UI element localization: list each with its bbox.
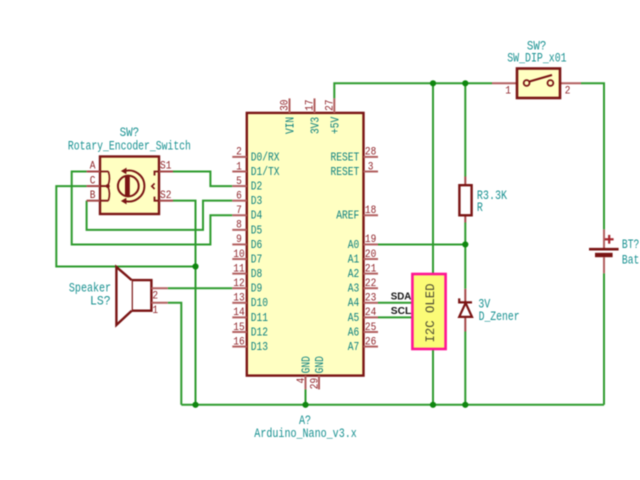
svg-text:Rotary_Encoder_Switch: Rotary_Encoder_Switch (68, 139, 191, 153)
svg-text:2: 2 (152, 291, 158, 303)
svg-text:S1: S1 (160, 161, 172, 173)
svg-text:A5: A5 (348, 312, 360, 325)
svg-text:18: 18 (365, 205, 376, 217)
svg-text:C: C (90, 175, 96, 187)
svg-text:6: 6 (236, 190, 242, 202)
svg-text:LS?: LS? (90, 295, 111, 309)
svg-text:24: 24 (365, 307, 377, 319)
svg-text:A2: A2 (348, 268, 360, 281)
svg-text:22: 22 (365, 278, 376, 290)
svg-text:D10: D10 (251, 297, 268, 310)
svg-text:25: 25 (365, 322, 376, 334)
svg-text:A7: A7 (348, 341, 360, 354)
svg-text:D11: D11 (251, 312, 268, 325)
svg-text:D2: D2 (251, 180, 263, 193)
svg-text:3V3: 3V3 (310, 117, 323, 134)
svg-text:B: B (90, 190, 96, 202)
svg-text:7: 7 (236, 205, 242, 217)
svg-text:AREF: AREF (336, 210, 359, 223)
svg-text:13: 13 (233, 293, 244, 305)
svg-text:17: 17 (305, 100, 317, 111)
svg-text:A6: A6 (348, 326, 360, 339)
svg-text:4: 4 (296, 377, 308, 383)
svg-text:28: 28 (365, 147, 376, 159)
svg-text:8: 8 (236, 220, 242, 232)
svg-text:D1/TX: D1/TX (251, 166, 280, 179)
svg-text:27: 27 (325, 100, 337, 111)
svg-text:A?: A? (299, 414, 311, 428)
svg-text:2: 2 (236, 147, 242, 159)
svg-text:26: 26 (365, 336, 376, 348)
svg-text:10: 10 (233, 249, 244, 261)
svg-text:19: 19 (365, 234, 376, 246)
svg-text:Arduino_Nano_v3.x: Arduino_Nano_v3.x (254, 427, 356, 441)
svg-text:3: 3 (368, 161, 374, 173)
svg-text:D12: D12 (251, 326, 268, 339)
svg-text:SW_DIP_x01: SW_DIP_x01 (507, 51, 566, 65)
svg-text:D8: D8 (251, 268, 263, 281)
svg-text:D5: D5 (251, 224, 263, 237)
svg-text:15: 15 (233, 322, 244, 334)
svg-text:SCL: SCL (391, 306, 412, 317)
svg-text:D6: D6 (251, 239, 263, 252)
svg-text:GND: GND (301, 356, 314, 373)
svg-text:S2: S2 (160, 190, 171, 202)
svg-text:RESET: RESET (331, 151, 360, 164)
svg-text:12: 12 (233, 278, 244, 290)
svg-text:SW?: SW? (120, 126, 140, 140)
svg-text:D13: D13 (251, 341, 268, 354)
svg-text:23: 23 (365, 293, 376, 305)
svg-text:+5V: +5V (330, 117, 343, 134)
svg-text:RESET: RESET (331, 166, 360, 179)
svg-text:Battery: Battery (622, 253, 640, 267)
svg-text:A: A (90, 161, 96, 173)
svg-text:1: 1 (152, 305, 158, 317)
svg-text:D3: D3 (251, 195, 263, 208)
svg-text:Speaker: Speaker (69, 281, 111, 295)
svg-text:A1: A1 (348, 253, 360, 266)
svg-text:2: 2 (565, 85, 571, 97)
svg-text:29: 29 (310, 378, 322, 389)
svg-text:20: 20 (365, 249, 376, 261)
svg-text:1: 1 (505, 85, 511, 97)
svg-text:D0/RX: D0/RX (251, 151, 280, 164)
svg-text:D7: D7 (251, 253, 262, 266)
svg-text:I2C OLED: I2C OLED (424, 284, 438, 343)
svg-text:VIN: VIN (285, 117, 298, 134)
svg-text:A4: A4 (348, 297, 360, 310)
svg-text:14: 14 (233, 307, 245, 319)
svg-text:21: 21 (365, 263, 377, 275)
svg-text:R: R (477, 201, 483, 215)
svg-text:GND: GND (314, 356, 327, 373)
svg-text:5: 5 (236, 176, 242, 188)
svg-text:30: 30 (280, 100, 292, 111)
svg-text:D_Zener: D_Zener (479, 310, 520, 324)
svg-text:9: 9 (236, 234, 242, 246)
svg-text:16: 16 (233, 336, 244, 348)
svg-text:A0: A0 (348, 239, 360, 252)
svg-text:D4: D4 (251, 210, 263, 223)
svg-text:BT?: BT? (622, 238, 639, 252)
svg-text:11: 11 (233, 263, 245, 275)
svg-text:A3: A3 (348, 283, 360, 296)
svg-text:SDA: SDA (391, 292, 412, 303)
svg-text:1: 1 (236, 161, 242, 173)
svg-text:D9: D9 (251, 283, 263, 296)
